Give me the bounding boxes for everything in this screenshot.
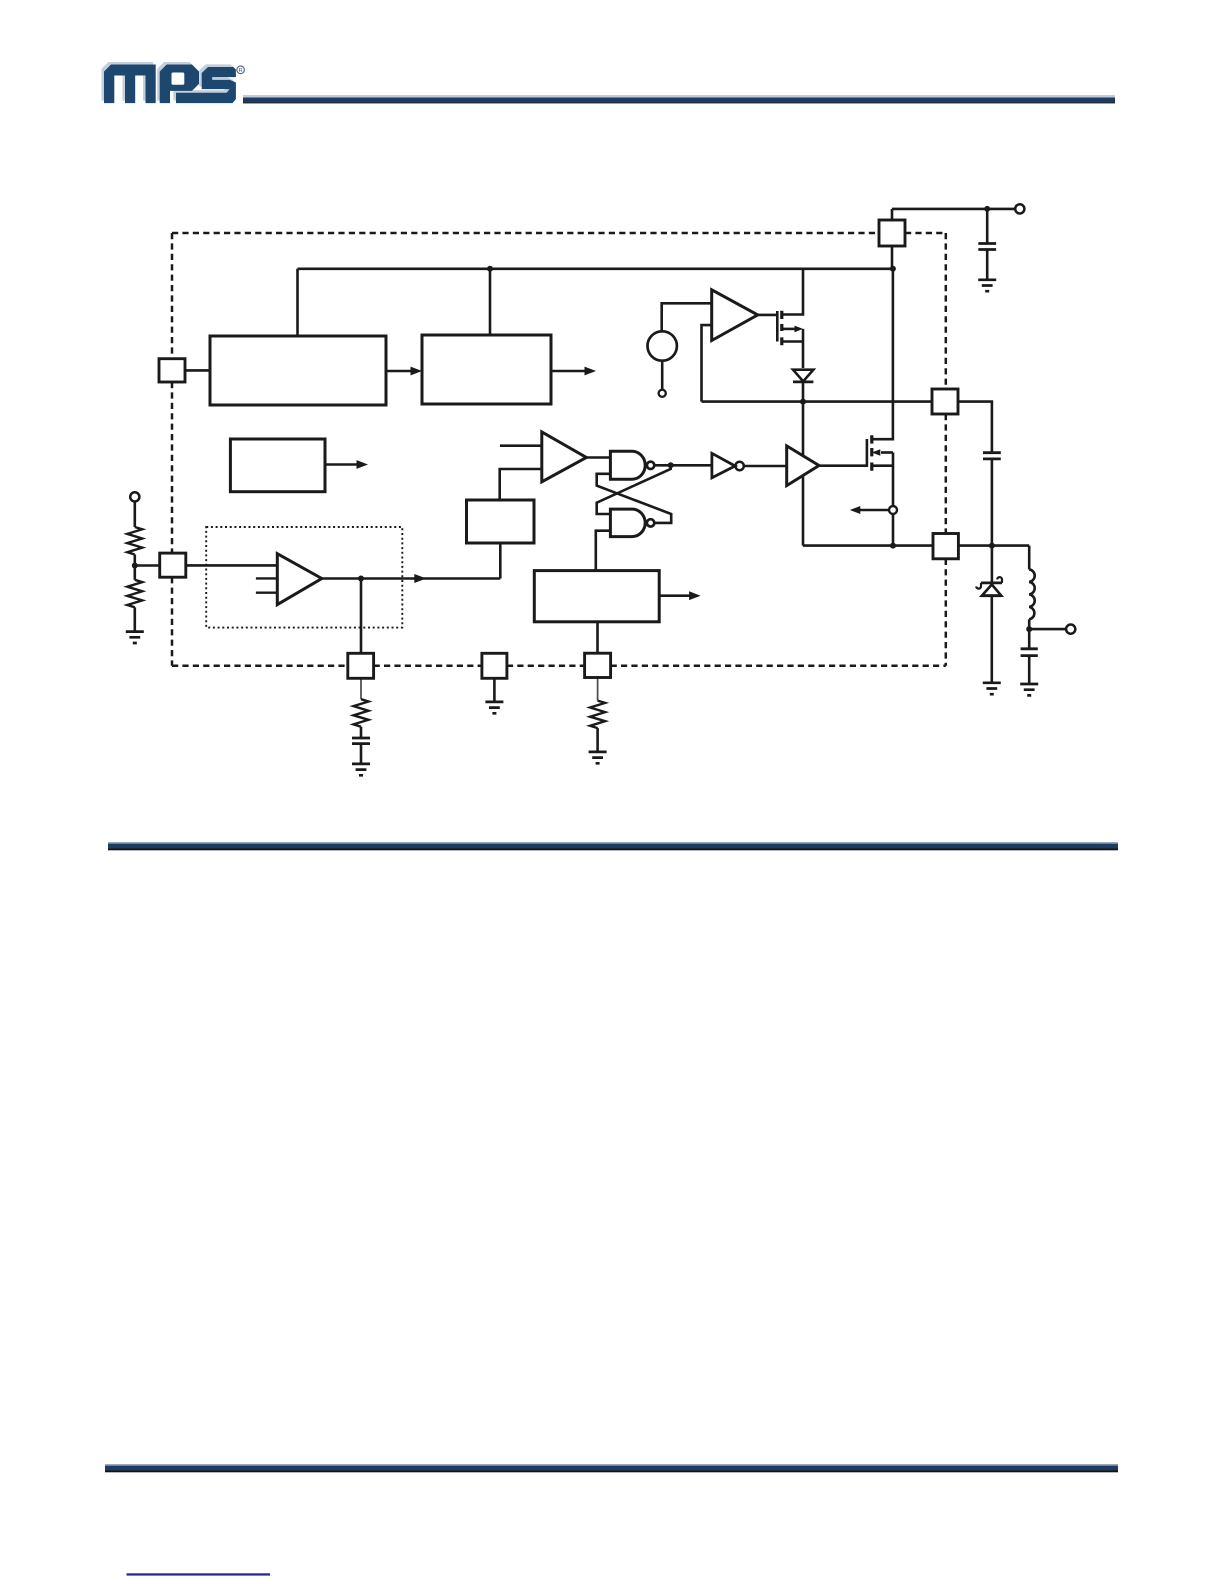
- wire big box output arrow: [659, 594, 690, 597]
- inductor L: [1028, 546, 1031, 570]
- comparator PWM: [542, 432, 587, 482]
- footer note line: [127, 1573, 271, 1575]
- terminal VIN: [1015, 204, 1024, 213]
- wire op-amp top input to current source: [662, 303, 712, 331]
- diode boot: [793, 370, 813, 382]
- arrow mid-wire EA out: [414, 574, 426, 583]
- wire rail down to power FET drain: [872, 269, 893, 439]
- wire box1 to box2 with arrow: [386, 370, 411, 373]
- reference stubs: [256, 578, 277, 592]
- inverter: [712, 453, 735, 478]
- capacitor COMP: [352, 738, 370, 744]
- wire comparator lower input from small box: [500, 469, 542, 500]
- header rule: [243, 95, 1115, 103]
- section divider bar 1: [108, 842, 1118, 850]
- BLOCK DIAGRAM: [126, 204, 1075, 775]
- node rail-box2: [487, 266, 493, 272]
- pin squares: [159, 220, 958, 678]
- FB pin resistor: [597, 678, 599, 701]
- wire driver output to power FET gate: [819, 464, 867, 467]
- COMP pin network: [360, 678, 362, 699]
- wire IN pin up and to input terminal: [892, 209, 1015, 220]
- wire IN pin down to rail: [891, 246, 894, 269]
- current sense arrow: [858, 509, 889, 512]
- node NAND1 out: [668, 462, 674, 468]
- error amplifier: [277, 554, 322, 605]
- block UVLO box1: [210, 336, 386, 405]
- wire BS pin to bootstrap cap: [958, 402, 992, 453]
- pin COMP: [348, 653, 374, 678]
- terminal VOUT: [1066, 625, 1075, 634]
- ground divider: [126, 632, 144, 643]
- gate NAND1: [610, 451, 645, 479]
- capacitor bootstrap: [983, 453, 1001, 459]
- wire COMP node down to COMP pin: [360, 579, 363, 654]
- FB divider: terminal: [130, 492, 139, 501]
- node SW: [890, 543, 896, 549]
- terminal under current source: [661, 361, 664, 390]
- node VOUT: [1026, 626, 1032, 632]
- resistor R1: [127, 527, 142, 555]
- wire driver low rail to SW: [803, 477, 933, 546]
- node BS-diode: [800, 399, 806, 405]
- capacitor COUT: [1028, 629, 1031, 649]
- GND pin ground: [493, 678, 496, 702]
- current sense circle: [889, 506, 897, 514]
- node rail-IN: [890, 266, 896, 272]
- wire rail branch to boot FET drain: [782, 269, 803, 315]
- transistor boot FET: [777, 311, 803, 368]
- wire comparator top input stub: [500, 444, 542, 447]
- node divider: [132, 563, 138, 569]
- wire VCC rail: [298, 267, 893, 270]
- ground CIN: [978, 280, 996, 291]
- dotted error-amp sub-box: [206, 527, 402, 628]
- svg-text:R: R: [239, 68, 243, 74]
- capacitor CIN: [986, 209, 989, 244]
- arrow into box2: [411, 367, 423, 376]
- node COMP: [358, 576, 364, 582]
- block small box (slope comp): [467, 500, 535, 543]
- wire op-amp output to boot FET gate: [758, 314, 778, 317]
- wire NAND1 output: [654, 464, 712, 467]
- current source circle: [648, 331, 677, 360]
- driver triangle: [787, 446, 819, 486]
- resistor COMP: [354, 699, 369, 727]
- wire BS net: [702, 400, 933, 403]
- ground COMP: [352, 764, 370, 775]
- wire inverter to driver: [744, 465, 787, 468]
- wire latch cross coupling B: [597, 465, 671, 514]
- wire node to FB pin square: [135, 564, 160, 567]
- ground FB resistor: [589, 752, 607, 763]
- wire BS node down to driver: [802, 402, 805, 456]
- wire op-amp lower input to BS net: [702, 325, 712, 402]
- gate NAND2: [610, 509, 645, 536]
- section divider bar 2: [105, 1464, 1118, 1472]
- block big box (oscillator): [534, 571, 659, 622]
- wire to output terminal: [1029, 628, 1066, 631]
- MPS logo: [102, 62, 245, 103]
- pin EN: [159, 359, 185, 382]
- pin SW: [933, 534, 958, 559]
- wire latch cross coupling A: [597, 474, 672, 523]
- op-amp U-boot comparator: [712, 290, 758, 341]
- block box2: [422, 335, 551, 404]
- wire rail to box2 top: [489, 269, 492, 335]
- ground catch diode: [983, 683, 1001, 694]
- resistor R2: [134, 566, 137, 580]
- pin IN: [879, 220, 905, 246]
- wire SW pin to inductor: [958, 544, 1029, 547]
- wire box2 output arrow: [551, 370, 585, 373]
- wire EA output to small box: [322, 543, 501, 579]
- ground COUT: [1020, 684, 1038, 695]
- node SW-bootcap: [989, 543, 995, 549]
- node IN-cap: [984, 206, 990, 212]
- block box3 reference: [230, 439, 325, 492]
- wire comparator output to NAND1: [586, 456, 610, 459]
- wire big box bottom to FB pin: [596, 622, 599, 653]
- wire NAND2 lower input from oscillator: [596, 531, 611, 571]
- wire box3 output arrow: [325, 463, 357, 466]
- IC boundary dashed border: [172, 233, 946, 666]
- pin FB bottom: [585, 653, 611, 677]
- wire box1 top to VCC rail: [296, 269, 299, 336]
- pin FB left: [160, 553, 186, 577]
- pin BS: [932, 389, 958, 414]
- wire EN pin to box1: [185, 369, 210, 372]
- transistor power FET: [867, 435, 893, 545]
- pin GND: [482, 653, 507, 678]
- wire FB pin to error amp: [186, 564, 277, 567]
- diode catch schottky: [991, 546, 994, 583]
